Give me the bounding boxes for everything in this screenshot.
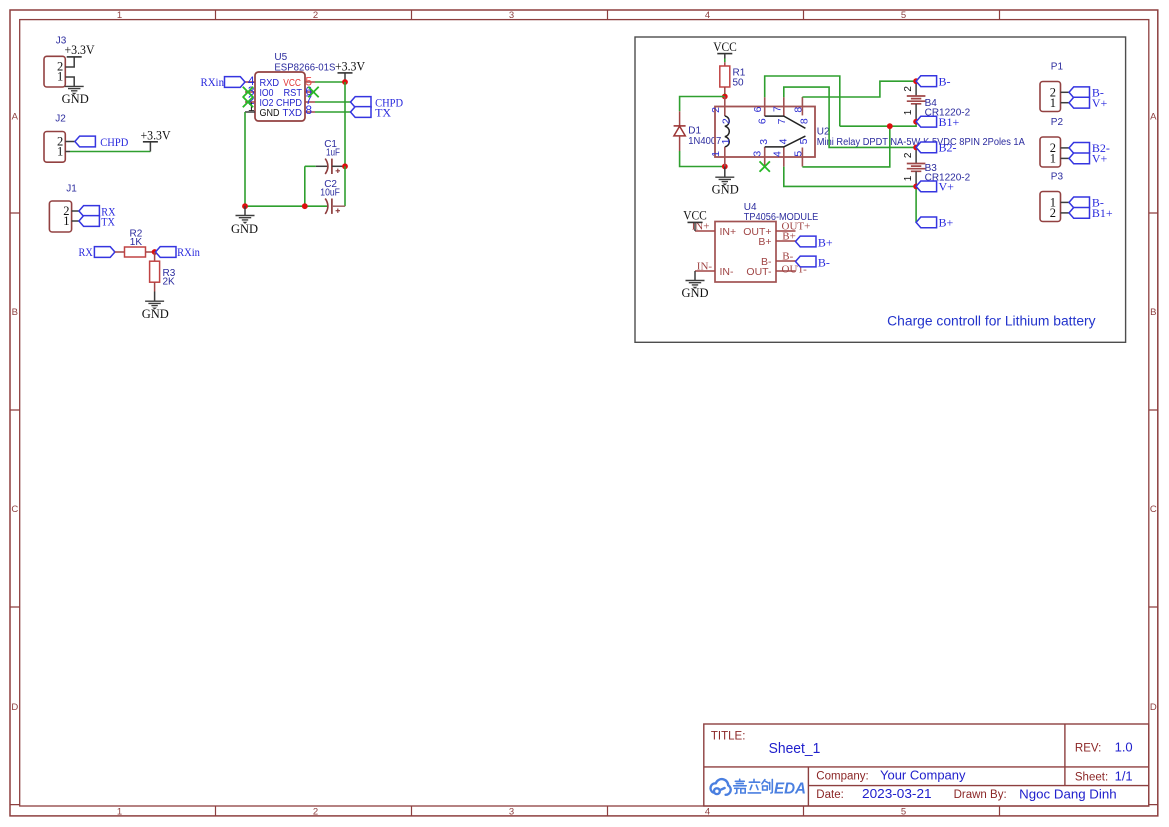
svg-text:2: 2 (710, 107, 722, 113)
U5 pin name CHPD (276, 98, 302, 109)
J3 pin 2 wire to +3.3V (65, 57, 74, 67)
title block Date row (816, 786, 1116, 802)
svg-text:5: 5 (792, 151, 804, 157)
U2 coil (725, 116, 729, 147)
svg-text:7: 7 (776, 118, 788, 124)
svg-text:1: 1 (57, 145, 63, 159)
P1 pin 1 number (1050, 96, 1056, 110)
junction C2 left (302, 203, 308, 209)
J1 pin 2 number (63, 204, 69, 218)
svg-text:1: 1 (63, 214, 69, 228)
svg-text:6: 6 (752, 106, 764, 112)
svg-text:VCC: VCC (683, 209, 707, 223)
P1 pin 1 stub (1061, 102, 1070, 104)
P3 pin 1 number (1050, 195, 1056, 209)
junction B2- node (913, 145, 919, 151)
svg-text:V+: V+ (939, 180, 955, 194)
U2 pin number 7 edge (771, 106, 783, 112)
svg-text:1: 1 (1050, 151, 1056, 165)
U4 pin IN- stub (695, 270, 715, 272)
battery B4 (907, 96, 926, 104)
junction GND bus left (242, 203, 248, 209)
battery B3 label (925, 163, 971, 184)
svg-text:2K: 2K (163, 277, 176, 288)
frame row ticks right (1149, 213, 1158, 607)
svg-text:1: 1 (710, 151, 722, 157)
net flag V+ at P2 (1069, 152, 1108, 166)
connector P1 (1040, 82, 1061, 112)
U5 pin name VCC (283, 78, 301, 89)
svg-text:B+: B+ (939, 216, 954, 230)
svg-text:3: 3 (758, 139, 770, 145)
svg-text:IN-: IN- (697, 261, 713, 273)
svg-text:2: 2 (313, 10, 318, 21)
wire U5 GND down (244, 112, 246, 206)
junction B- node (913, 78, 919, 84)
net flag CHPD at J2 (75, 135, 129, 149)
svg-text:IN-: IN- (720, 266, 735, 278)
battery B3 top stub (915, 147, 917, 163)
svg-text:P1: P1 (1051, 61, 1064, 72)
B3 pin 1 number (903, 175, 914, 181)
wire net1 horizontal to B1+ (840, 122, 916, 127)
svg-text:2023-03-21: 2023-03-21 (862, 786, 932, 801)
net flag B1+ at P3 (1069, 206, 1113, 220)
note charge control text (887, 314, 1096, 329)
connector P1 label (1051, 61, 1064, 72)
svg-text:4: 4 (705, 807, 710, 818)
svg-text:D: D (1150, 702, 1157, 713)
U2 pin name 1 (720, 138, 732, 144)
svg-text:C: C (1150, 504, 1157, 515)
svg-text:RXin: RXin (177, 245, 200, 259)
J1 pin 1 number (63, 214, 69, 228)
U5 pin 7 stub (305, 101, 315, 103)
svg-text:B1+: B1+ (939, 115, 960, 129)
svg-text:1N4007: 1N4007 (688, 136, 721, 147)
U5 pin 4 stub (245, 81, 255, 83)
battery B4 bottom stub (915, 104, 917, 122)
svg-text:8: 8 (305, 103, 312, 117)
sub-circuit bounding box (635, 37, 1126, 342)
svg-text:2: 2 (1050, 206, 1056, 220)
svg-text:V+: V+ (1092, 96, 1108, 110)
svg-text:OUT-: OUT- (746, 266, 772, 278)
battery B3 bottom stub (915, 172, 917, 187)
U2 pin name 7 (776, 118, 788, 124)
U5 pin 3 stub (245, 91, 255, 93)
frame row letters left (11, 112, 18, 713)
svg-text:P2: P2 (1051, 117, 1064, 128)
relay U2 body (715, 107, 815, 158)
chip U5 label (274, 52, 335, 73)
junction relay pin1 GND (722, 164, 728, 170)
P2 pin 1 stub (1061, 157, 1070, 159)
svg-text:1: 1 (903, 109, 914, 115)
wire pin8 to B- (net 3) (802, 81, 916, 97)
svg-text:B: B (12, 307, 18, 318)
P2 pin 2 number (1050, 141, 1056, 155)
connector P3 label (1051, 171, 1064, 182)
B3 pin 2 number (903, 152, 914, 158)
wire pin4 to V+ (net 5) (784, 167, 916, 187)
U2 pin number 1 edge (710, 151, 722, 157)
P3 pin 2 number (1050, 206, 1056, 220)
P1 pin 2 stub (1061, 91, 1070, 93)
power +3.3V at U5 (335, 60, 365, 83)
wire +3.3V rail down (344, 82, 346, 166)
net label B+ (782, 231, 796, 243)
J3 pin 2 number (57, 59, 63, 73)
U5 pin name IO0 (260, 88, 274, 99)
svg-text:5: 5 (901, 807, 906, 818)
resistor R2 (125, 247, 146, 257)
U5 pin 8 stub (305, 111, 315, 113)
U2 pin name 5 (798, 138, 810, 144)
connector J3 label (56, 36, 67, 47)
svg-text:2: 2 (313, 807, 318, 818)
U5 pin name TXD (283, 108, 303, 119)
relay U2 label (817, 126, 1025, 148)
svg-text:Your Company: Your Company (880, 768, 966, 783)
junction R1 bottom (722, 94, 728, 100)
svg-text:4: 4 (705, 10, 710, 21)
svg-text:3: 3 (509, 807, 514, 818)
U5 pin name RXD (260, 78, 280, 89)
connector J3 (44, 56, 65, 87)
frame row letters right (1150, 112, 1157, 713)
resistor R1 label (733, 68, 746, 89)
wire +3.3V rail to C2 (344, 166, 346, 206)
P2 pin 2 stub (1061, 147, 1070, 149)
U2 pin 3 stub (764, 147, 766, 167)
U5 pin name GND (260, 108, 280, 119)
net label IN- (697, 261, 713, 273)
svg-text:GND: GND (142, 307, 169, 321)
svg-text:1.0: 1.0 (1115, 740, 1133, 755)
svg-text:B-: B- (782, 251, 793, 263)
C2 right lead (332, 205, 345, 207)
U2 pin name 4 (778, 138, 790, 144)
svg-text:5: 5 (901, 10, 906, 21)
J1 pin 1 stub (72, 220, 79, 222)
U5 pin numbers right (305, 74, 312, 117)
connector J2 (44, 132, 65, 163)
ground at U5 (231, 206, 258, 236)
connector J1 label (66, 184, 77, 195)
svg-text:1: 1 (117, 10, 122, 21)
svg-text:B+: B+ (818, 235, 833, 249)
svg-text:Charge controll for Lithium ba: Charge controll for Lithium battery (887, 314, 1096, 329)
U4 pin name IN+ (720, 226, 737, 238)
frame corner steps bottom (10, 804, 1158, 806)
svg-text:2: 2 (903, 152, 914, 158)
C2 left lead (305, 205, 327, 207)
P3 pin 1 stub (1061, 201, 1070, 203)
D1 bottom lead (679, 136, 681, 151)
svg-text:Sheet_1: Sheet_1 (769, 740, 821, 757)
svg-text:J2: J2 (55, 114, 66, 125)
svg-text:7: 7 (771, 106, 783, 112)
battery B3 (907, 164, 926, 172)
svg-text:5: 5 (798, 138, 810, 144)
R2 left lead (115, 251, 125, 253)
net flag B- at B4 (916, 75, 950, 89)
U2 pin 2 stub (724, 97, 726, 117)
svg-text:TXD: TXD (283, 108, 303, 119)
net flag B2- at B3 (916, 141, 956, 155)
U4 pin IN+ stub (695, 230, 715, 232)
title block Company row (816, 768, 966, 783)
svg-text:1: 1 (1050, 96, 1056, 110)
net flag B+ at U4 (796, 235, 833, 249)
capacitor C1 (325, 159, 340, 174)
J2 pin 2 number (57, 135, 63, 149)
svg-text:TX: TX (101, 214, 115, 228)
wire VCC to R1 (724, 59, 726, 63)
B4 pin 2 number (903, 86, 914, 92)
resistor R2 label (130, 228, 143, 248)
junction net4 (887, 123, 893, 129)
net label OUT+ (782, 221, 811, 233)
svg-text:1: 1 (57, 70, 63, 84)
svg-text:3: 3 (509, 10, 514, 21)
resistor R1 (720, 66, 730, 87)
power VCC at U4 (683, 209, 707, 232)
C1 left lead (305, 165, 327, 167)
wire to D1 top (680, 97, 725, 112)
no-connect X relay pin 3 (760, 161, 770, 171)
svg-text:B+: B+ (758, 236, 771, 248)
net flag RX at J1 (79, 204, 116, 218)
svg-text:IN+: IN+ (720, 226, 737, 238)
net flag RXin at U5 (201, 75, 246, 89)
U2 pin name 8 (799, 118, 811, 124)
net flag B- at P3 (1069, 196, 1104, 210)
svg-text:8: 8 (799, 118, 811, 124)
svg-text:RX: RX (79, 245, 93, 259)
wire D1 bottom to GND node (680, 151, 725, 167)
svg-text:Ngoc Dang Dinh: Ngoc Dang Dinh (1019, 787, 1116, 802)
J3 pin 1 number (57, 70, 63, 84)
svg-text:RXin: RXin (201, 75, 225, 89)
junction U5 VCC (342, 79, 348, 85)
U2 pin number 6 edge (752, 106, 764, 112)
title block sheet name (769, 740, 821, 757)
U2 pin number 5 edge (792, 151, 804, 157)
svg-text:+3.3V: +3.3V (64, 43, 94, 57)
net flag CHPD at U5 (351, 95, 404, 109)
svg-text:REV:: REV: (1075, 743, 1101, 755)
J2 pin 1 stub (65, 151, 70, 153)
U2 pin 1 stub (724, 147, 726, 167)
svg-text:4: 4 (778, 138, 790, 144)
svg-text:D: D (11, 702, 18, 713)
svg-text:B+: B+ (782, 231, 796, 243)
wire pin7 to B2- (net 2) (784, 87, 916, 147)
junction V+ node (913, 184, 919, 190)
ground bus wire (245, 205, 305, 207)
ground at R3 (142, 301, 169, 321)
title block TITLE label (711, 731, 746, 743)
svg-text:P3: P3 (1051, 171, 1064, 182)
net flag B1+ at B4 (916, 115, 959, 129)
J2 pin 1 number (57, 145, 63, 159)
U2 pin number 8 edge (792, 107, 804, 113)
diode D1 label (688, 126, 721, 148)
svg-text:B2-: B2- (939, 141, 957, 155)
U5 pin name IO2 (260, 98, 274, 109)
frame column numbers bottom (117, 807, 906, 818)
svg-text:B-: B- (939, 75, 951, 89)
U5 pin 6 stub (305, 91, 315, 93)
no-connect X pin 3 (243, 87, 253, 97)
net flag B- at U4 (796, 255, 830, 269)
net flag V+ at B3 (916, 180, 954, 194)
U5 pin numbers left (248, 74, 255, 114)
U4 pin name IN- (720, 266, 735, 278)
svg-text:1: 1 (903, 175, 914, 181)
U2 pin number 3 edge (752, 151, 764, 157)
U4 pin B+ stub (776, 240, 796, 242)
net flag RXin at R2 (156, 245, 200, 259)
U4 pin B- stub (776, 260, 796, 262)
svg-text:+3.3V: +3.3V (335, 60, 365, 74)
capacitor C1 label (324, 139, 340, 158)
svg-text:8: 8 (792, 107, 804, 113)
svg-text:TITLE:: TITLE: (711, 731, 746, 743)
svg-text:C: C (11, 504, 18, 515)
svg-text:GND: GND (231, 222, 258, 236)
wire V+ down to B+ flag (915, 186, 917, 222)
module U4 body (715, 222, 776, 283)
P3 pin 2 stub (1061, 212, 1070, 214)
connector P2 label (1051, 117, 1064, 128)
junction RXin node (152, 249, 158, 255)
svg-text:GND: GND (712, 182, 739, 196)
U5 pin name RST (284, 88, 303, 99)
connector J2 label (55, 114, 66, 125)
U2 pin 7 stub (783, 97, 785, 116)
U4 pin name OUT- (746, 266, 772, 278)
U4 pin name B- (761, 256, 772, 268)
J1 pin 2 stub (72, 210, 79, 212)
ground at relay (712, 167, 739, 197)
R3 top lead (154, 252, 156, 261)
frame column numbers top (117, 10, 906, 21)
module U4 label (744, 202, 819, 223)
svg-text:2: 2 (903, 86, 914, 92)
wire U5 TXD to flag (315, 111, 351, 113)
net flag B+ below V+ (916, 216, 953, 230)
resistor R3 (150, 261, 160, 282)
frame column ticks top (216, 10, 1000, 20)
J3 pin 1 wire to GND (65, 77, 74, 86)
svg-text:1uF: 1uF (326, 148, 340, 159)
connector P3 (1040, 192, 1061, 222)
svg-text:A: A (1150, 112, 1157, 123)
ground at J3 (62, 86, 89, 105)
svg-text:EDA: EDA (774, 780, 806, 797)
connector P2 (1040, 137, 1061, 167)
U4 pin OUT- stub (776, 270, 796, 272)
wire pin6 to B- battery top (net 1) (765, 76, 840, 126)
net label B- (782, 251, 793, 263)
svg-text:J1: J1 (66, 184, 77, 195)
net label OUT- (782, 264, 808, 276)
U2 pin 6 stub (764, 97, 766, 116)
chip U5 body (255, 72, 305, 121)
svg-text:B: B (1150, 307, 1156, 318)
U4 pin OUT+ stub (776, 230, 796, 232)
svg-text:D1: D1 (688, 126, 701, 137)
svg-text:10uF: 10uF (320, 188, 340, 199)
svg-text:B1+: B1+ (1092, 206, 1113, 220)
svg-text:Company:: Company: (816, 771, 868, 783)
power +3.3V at J3 (64, 43, 94, 57)
wire pin5 to B1+ node (net 4) (802, 126, 889, 167)
svg-text:6: 6 (756, 118, 768, 124)
net flag RX at R2 (79, 245, 115, 259)
ground at U4 (681, 271, 708, 300)
U5 pin 5 stub (305, 81, 315, 83)
U2 pin 8 stub (801, 97, 803, 115)
svg-text:+3.3V: +3.3V (140, 128, 170, 142)
R1 top lead (724, 62, 726, 66)
svg-text:GND: GND (62, 92, 89, 106)
D1 top lead (679, 111, 681, 126)
svg-text:1K: 1K (130, 237, 143, 248)
svg-text:VCC: VCC (713, 40, 737, 54)
capacitor C2 (325, 199, 340, 214)
svg-text:B-: B- (818, 255, 830, 269)
R3 bottom lead (154, 282, 156, 301)
svg-text:V+: V+ (1092, 152, 1108, 166)
title block Sheet row (1075, 769, 1133, 784)
svg-text:1/1: 1/1 (1115, 769, 1133, 784)
P1 pin 2 number (1050, 85, 1056, 99)
title block outline (704, 724, 1149, 806)
svg-text:1: 1 (117, 807, 122, 818)
power +3.3V at J2 (140, 128, 170, 151)
R1 bottom lead (724, 87, 726, 97)
wire C1 left branch down (304, 166, 306, 206)
wire U5 CHPD to flag (315, 101, 351, 103)
wire J2 pin1 to +3.3V (70, 151, 150, 153)
frame column ticks bottom (216, 806, 1000, 816)
svg-text:CHPD: CHPD (100, 135, 128, 149)
logo EDA text (774, 780, 806, 797)
U2 pin 4 stub (783, 147, 785, 167)
J2 pin 2 stub (65, 141, 75, 143)
JLCEDA logo (711, 779, 731, 795)
U2 switch 1 (765, 116, 806, 128)
U5 pin 2 stub (245, 101, 255, 103)
U2 pin number 4 edge (772, 151, 784, 157)
junction C1 right (342, 163, 348, 169)
wire U5 VCC to +3.3V (315, 81, 345, 83)
U2 switch 2 (765, 136, 806, 147)
capacitor C2 label (320, 179, 340, 198)
svg-text:A: A (12, 112, 19, 123)
svg-text:4: 4 (772, 151, 784, 157)
U2 pin name 2 (721, 118, 733, 124)
P2 pin 1 number (1050, 151, 1056, 165)
svg-text:U2: U2 (817, 126, 830, 137)
U5 pin 1 stub (245, 111, 255, 113)
net flag B- at P1 (1069, 86, 1104, 100)
diode D1 (674, 126, 686, 136)
